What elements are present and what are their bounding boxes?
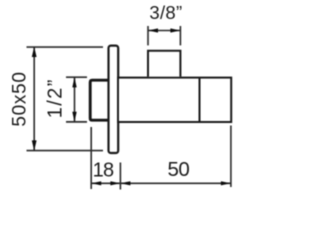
wire ext 50x50 top [27,46,104,48]
wire dim 18-50 [91,182,231,184]
node arrow 3/8 left [148,28,158,32]
node arrow 3/8 right [170,28,180,32]
wire ext 18 right [119,163,121,190]
wire ext 18 left [90,127,92,189]
node arrow 50 right [221,181,231,185]
node arrow 1/2 down [72,112,76,122]
node arrow 50x50 down [32,140,37,150]
wire ext 50 right [230,126,232,188]
node fitting-inlet [90,80,110,120]
wire ext 3/8 left [147,26,149,45]
wire ext 50x50 bottom [27,150,104,152]
svg-text:1/2”: 1/2” [45,78,67,118]
svg-text:18: 18 [93,159,114,181]
wire ext 3/8 right [179,26,181,45]
node outlet-stub [148,51,180,77]
svg-text:50: 50 [167,158,189,181]
node valve-body [118,78,231,122]
node arrow 18 left [92,181,102,185]
node wall-flange [109,46,119,153]
node arrow 50 left [121,181,131,185]
node arrow 50x50 up [32,47,37,57]
wire dim 50x50 [33,47,35,151]
wire dim 3/8 [148,30,180,32]
wire ext 1/2 top [66,76,87,78]
svg-text:50x50: 50x50 [9,71,30,126]
node arrow 1/2 up [72,77,76,87]
node arrow 18 right [110,181,120,185]
wire [0,0,240,194]
svg-text:3/8”: 3/8” [149,2,182,23]
node body-divider [199,78,201,122]
wire dim 1/2 [74,77,76,122]
wire ext 1/2 bottom [66,121,87,123]
